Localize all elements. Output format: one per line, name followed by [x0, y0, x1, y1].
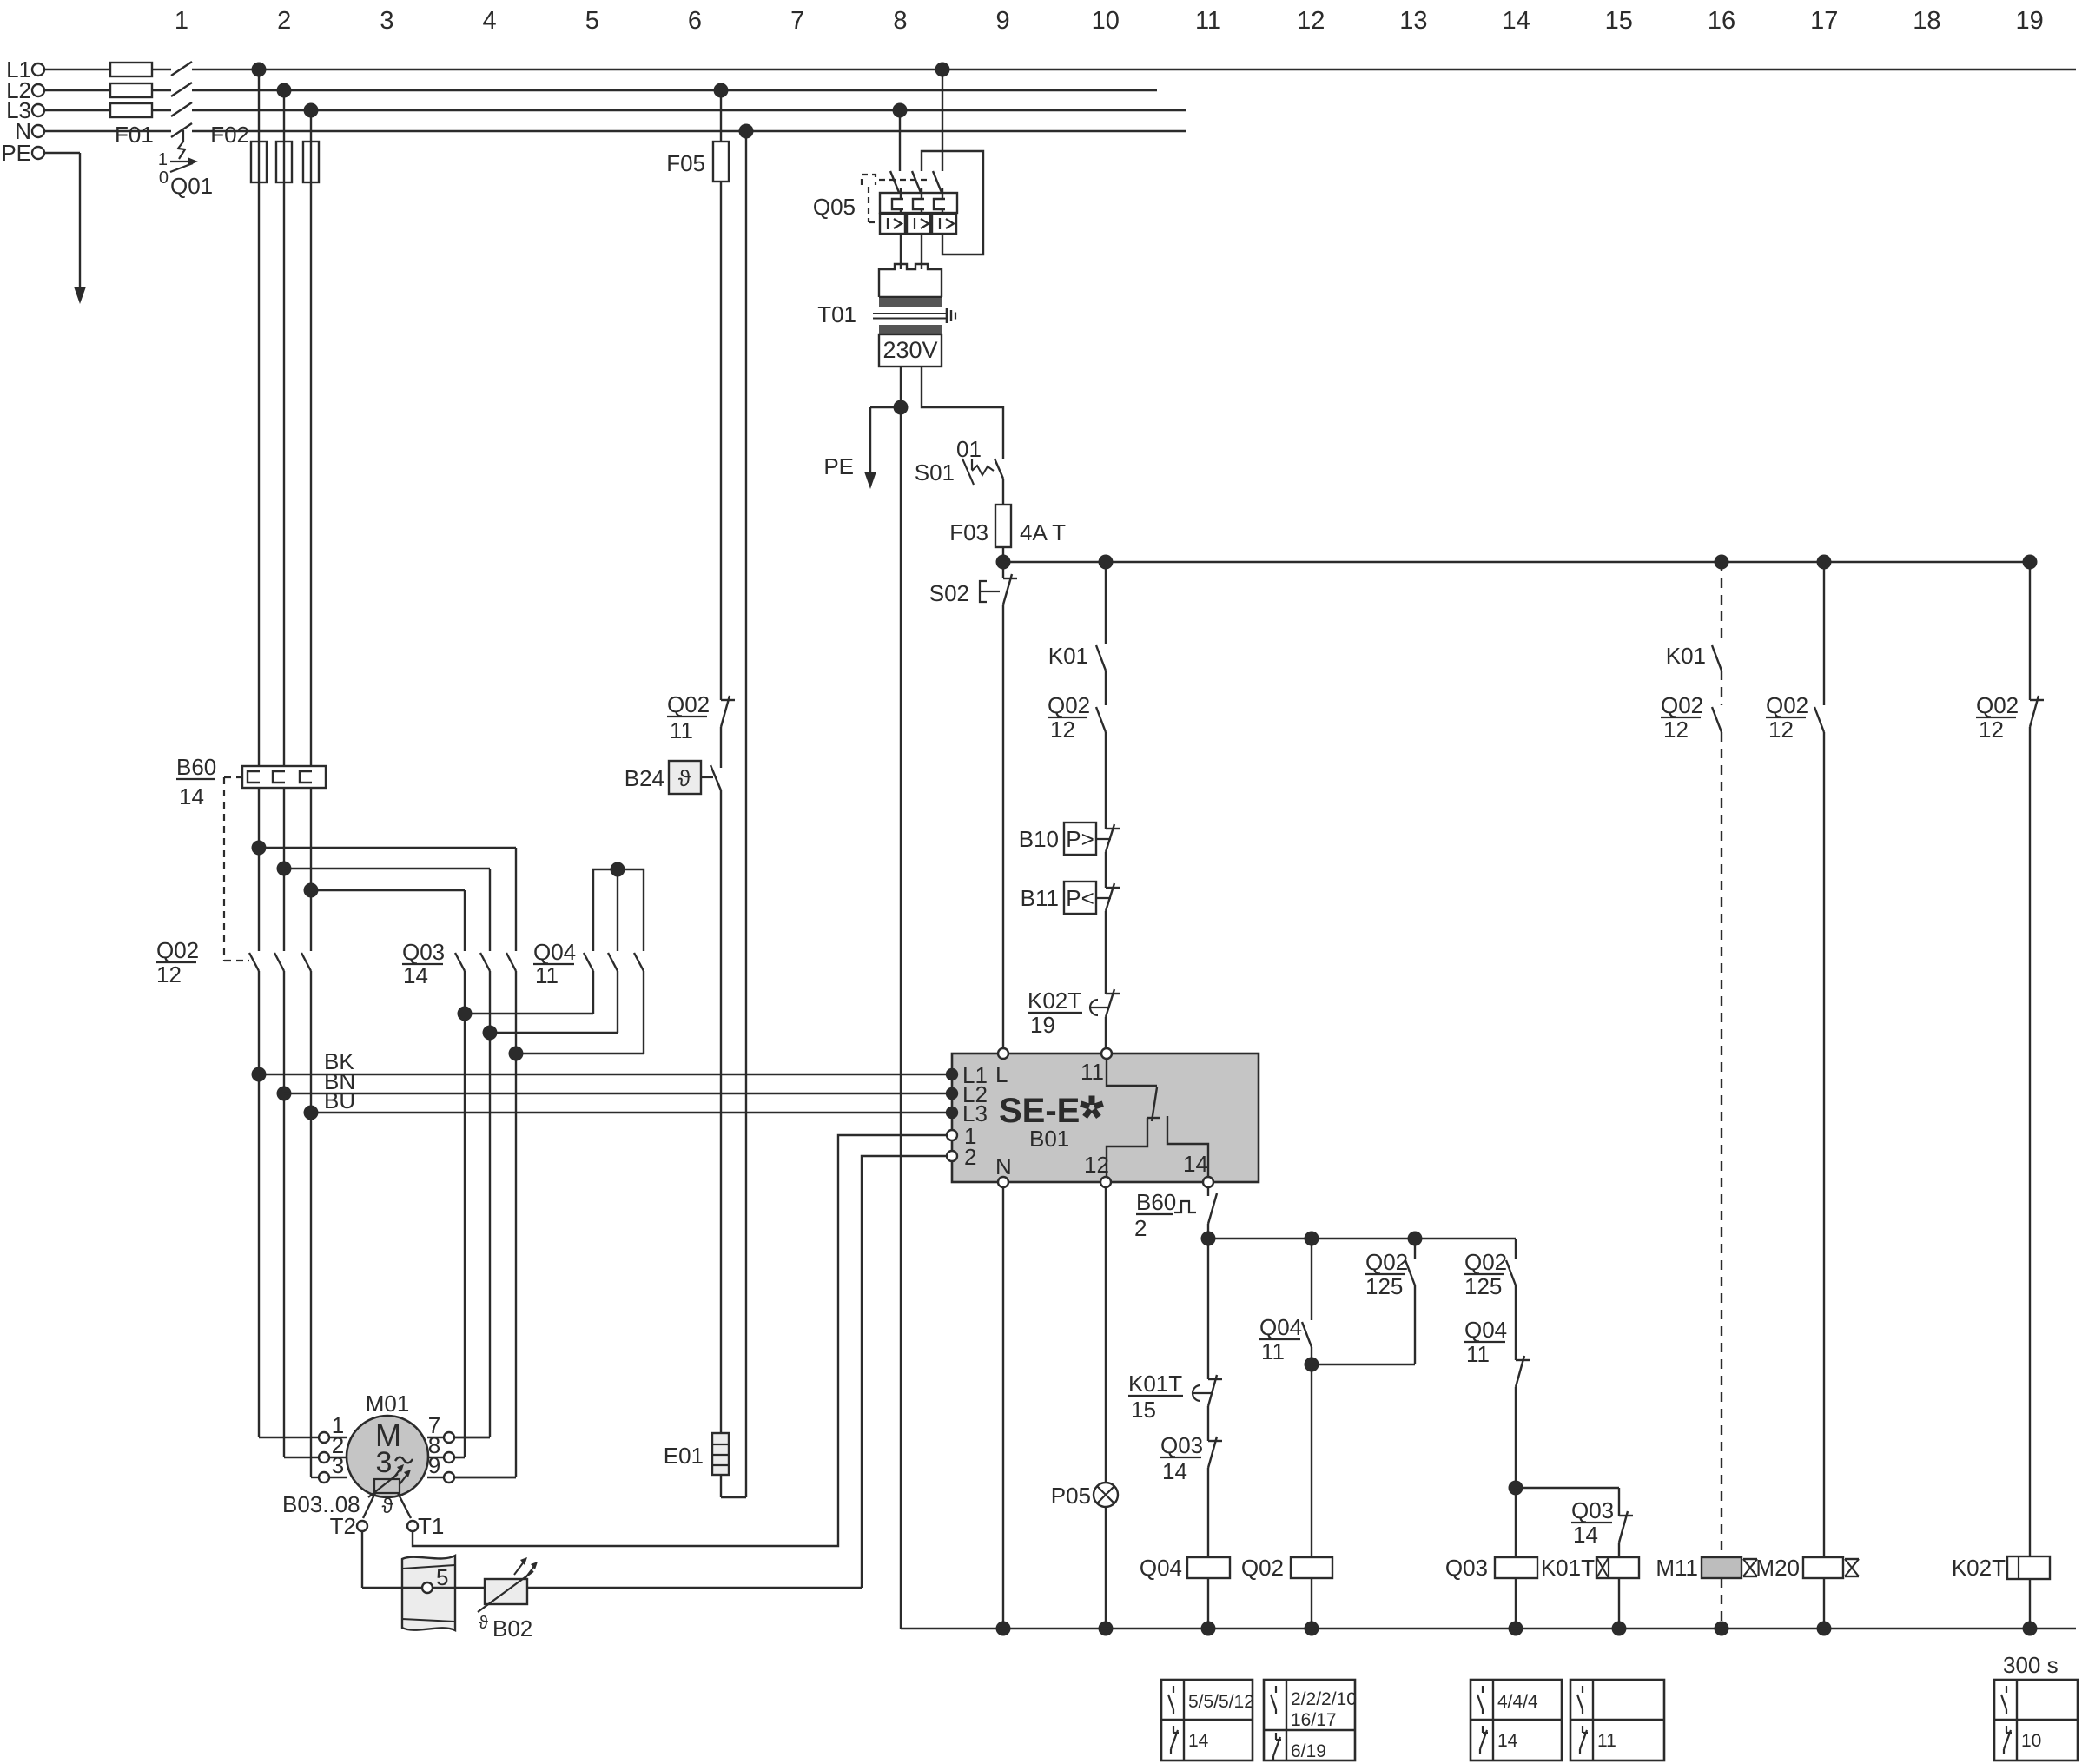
wire col17 b — [1823, 732, 1825, 1557]
svg-text:Q02: Q02 — [1661, 692, 1703, 718]
svg-text:14: 14 — [1497, 1731, 1518, 1751]
svg-text:12: 12 — [1979, 717, 2004, 743]
svg-text:F03: F03 — [949, 519, 988, 545]
contact K01T 15 — [1128, 1239, 1222, 1423]
contact K01 col10 — [1048, 643, 1106, 671]
svg-text:125: 125 — [1365, 1273, 1403, 1299]
node L1 tap q05 — [935, 63, 950, 77]
wire motor-terminals r — [427, 1437, 444, 1477]
wire col12 a — [1311, 1239, 1312, 1320]
svg-text:11: 11 — [1081, 1059, 1104, 1085]
svg-text:9: 9 — [428, 1452, 440, 1478]
svg-text:T01: T01 — [817, 301, 856, 327]
wire col17 a — [1823, 562, 1825, 705]
svg-text:9: 9 — [996, 7, 1010, 35]
node L1 tap — [252, 63, 267, 77]
xref table K02T — [1994, 1680, 2078, 1761]
wire T2-B02 — [362, 1531, 402, 1588]
wire L1-Q05 — [942, 69, 943, 171]
wire S01-F03 — [1002, 479, 1004, 505]
wire BN — [277, 1068, 948, 1101]
svg-text:Q02: Q02 — [667, 691, 710, 717]
breaker Q05 thermal elements — [880, 188, 957, 218]
fuse F03 4A T — [949, 505, 1066, 547]
coil Q04 — [1140, 1555, 1230, 1636]
contact Q03 14 aux — [1160, 1432, 1222, 1484]
svg-text:2/2/2/10: 2/2/2/10 — [1291, 1689, 1357, 1709]
svg-text:11: 11 — [1195, 7, 1221, 35]
svg-text:1: 1 — [158, 150, 168, 169]
wire B24-E01 — [720, 790, 722, 1433]
svg-text:Q04: Q04 — [1259, 1314, 1302, 1340]
svg-text:6: 6 — [688, 7, 702, 35]
svg-text:4/4/4: 4/4/4 — [1497, 1692, 1538, 1712]
svg-text:14: 14 — [403, 962, 428, 988]
wire col10 d — [1105, 852, 1107, 888]
terminal N — [15, 118, 44, 144]
svg-text:2: 2 — [1134, 1215, 1147, 1241]
svg-text:13: 13 — [1399, 7, 1427, 35]
svg-text:M11: M11 — [1656, 1555, 1698, 1581]
contact Q04 pole1 — [584, 953, 593, 971]
svg-text:230V: 230V — [882, 337, 937, 363]
lamp P05 — [1051, 1483, 1118, 1509]
wire T01 sec left — [900, 367, 902, 1629]
wire col16 dashed b — [1721, 671, 1722, 705]
motor terminal 1 — [319, 1412, 344, 1443]
wire Q04-Q03 tie1 — [458, 971, 594, 1021]
svg-text:125: 125 — [1464, 1273, 1502, 1299]
svg-text:5: 5 — [436, 1564, 448, 1590]
svg-text:14: 14 — [179, 783, 204, 809]
svg-text:SE-E: SE-E — [999, 1092, 1080, 1130]
node N tap — [739, 124, 754, 139]
motor terminal 3 — [319, 1452, 344, 1483]
svg-text:4: 4 — [483, 7, 497, 35]
svg-text:Q04: Q04 — [1464, 1317, 1507, 1343]
svg-text:17: 17 — [1810, 7, 1838, 35]
svg-text:B60: B60 — [176, 754, 216, 780]
wire K01T-Q03c — [1207, 1406, 1209, 1441]
svg-text:M01: M01 — [366, 1391, 410, 1417]
svg-text:5: 5 — [585, 7, 599, 35]
contact Q02 pole2 — [274, 953, 284, 971]
wire col14 b — [1515, 1488, 1517, 1557]
svg-text:S01: S01 — [915, 459, 955, 486]
svg-text:Q03: Q03 — [1445, 1555, 1488, 1581]
svg-text:Q05: Q05 — [813, 194, 856, 220]
switch S01 — [915, 436, 1003, 486]
svg-text:B11: B11 — [1021, 885, 1059, 911]
wire phase W — [311, 110, 319, 1477]
wire Q04 star bridge — [593, 862, 644, 952]
contact Q04 pole2 — [608, 953, 618, 971]
wire F05-Q02 — [720, 182, 722, 700]
wire L2 rail — [44, 89, 1157, 91]
node sec junction — [894, 400, 909, 415]
svg-text:PE: PE — [823, 453, 854, 479]
svg-text:8: 8 — [893, 7, 907, 35]
node L2 tap — [277, 83, 292, 98]
svg-text:01: 01 — [956, 436, 982, 462]
terminal L2 — [6, 77, 44, 103]
svg-text:F01: F01 — [115, 122, 154, 148]
svg-text:K01T: K01T — [1128, 1371, 1182, 1397]
contact Q02 11 — [667, 691, 735, 743]
contact Q03 pole2 — [480, 953, 490, 971]
svg-text:B10: B10 — [1019, 826, 1059, 852]
svg-text:18: 18 — [1913, 7, 1940, 35]
switch S02 — [929, 562, 1017, 606]
wire Q03c-Q04coil — [1207, 1468, 1209, 1557]
svg-text:Q02: Q02 — [1766, 692, 1808, 718]
fuse F02 — [210, 122, 319, 182]
wire col15 b — [1618, 1543, 1620, 1557]
wire Q05 loop — [922, 151, 983, 254]
label 300 s — [2003, 1652, 2059, 1678]
wire branch W-Q03 — [304, 883, 466, 952]
fuse F05 — [666, 90, 729, 182]
svg-text:14: 14 — [1188, 1731, 1209, 1751]
coil Q03 — [1445, 1555, 1537, 1636]
breaker Q05 contacts — [813, 171, 942, 222]
contact Q02 pole1 — [249, 953, 259, 971]
pulse contact B60 2 — [1134, 1187, 1217, 1241]
svg-text:11: 11 — [670, 717, 693, 743]
svg-text:16: 16 — [1708, 7, 1735, 35]
svg-text:K02T: K02T — [1952, 1555, 2006, 1581]
wire therm-T2 — [363, 1493, 375, 1518]
wire col10 b — [1105, 671, 1107, 705]
wire col10 f — [1105, 1017, 1107, 1048]
contact Q02 12 col10 — [1048, 692, 1106, 743]
svg-text:Q02: Q02 — [156, 937, 199, 963]
node bus col19 — [2023, 555, 2038, 570]
motor terminal 7 — [428, 1412, 454, 1443]
wire Q03 pole3 out — [454, 971, 516, 1477]
svg-text:14: 14 — [1502, 7, 1530, 35]
svg-text:Q02: Q02 — [1365, 1249, 1408, 1275]
contact Q03 pole3 — [506, 953, 516, 971]
terminal SEE N — [995, 1153, 1012, 1187]
wire N drop — [745, 131, 747, 1497]
node control bus left — [996, 555, 1011, 570]
node col14 join — [1509, 1387, 1523, 1496]
wire B02-SEE2 — [862, 1156, 947, 1588]
svg-text:T1: T1 — [418, 1513, 444, 1539]
contact K01 col16 — [1666, 643, 1722, 671]
node bus col16 — [1715, 555, 1729, 570]
terminal SEE L1 — [947, 1062, 988, 1088]
wire branch V-Q03 — [277, 862, 491, 952]
transformer T01 230V — [817, 264, 955, 367]
wire t9 riser — [454, 1477, 516, 1478]
contact Q02 12 col19 — [1976, 692, 2044, 743]
node col12 join — [1305, 1347, 1319, 1372]
wire Q05-T01 a — [900, 234, 902, 269]
wire col19 b — [2029, 727, 2031, 1556]
wire control bus — [1003, 561, 2030, 563]
svg-text:PE: PE — [1, 140, 31, 166]
wire col10 e — [1105, 911, 1107, 994]
node L2-F05 tap — [714, 83, 729, 98]
wire col17 c — [1817, 1578, 1832, 1636]
device B01 SE-E box — [952, 1054, 1259, 1182]
svg-text:S02: S02 — [929, 580, 969, 606]
svg-text:11: 11 — [1261, 1338, 1285, 1364]
svg-text:10: 10 — [1092, 7, 1120, 35]
wire col16 dashed a — [1721, 562, 1722, 644]
svg-text:11: 11 — [535, 962, 559, 988]
label B03..08 — [282, 1491, 360, 1517]
node L3 tap q05 — [893, 103, 908, 118]
svg-text:3: 3 — [380, 7, 393, 35]
xref table Q02 — [1264, 1680, 1357, 1761]
svg-text:Q02: Q02 — [1048, 692, 1090, 718]
svg-text:4A T: 4A T — [1020, 519, 1066, 545]
xref table Q03 — [1471, 1680, 1562, 1761]
wire N rail — [44, 130, 1186, 132]
svg-text:12: 12 — [1050, 717, 1075, 743]
terminal SEE L2 — [947, 1081, 988, 1107]
svg-text:K01: K01 — [1666, 643, 1706, 669]
pressure switch B11 P&lt; — [1021, 882, 1120, 914]
svg-text:6/19: 6/19 — [1291, 1741, 1326, 1761]
breaker Q05 magnetic trips I&gt; — [880, 214, 956, 234]
wire terminals-motor — [329, 1437, 347, 1477]
wire col13 down — [1312, 1285, 1415, 1364]
solenoid coil M20 — [1755, 1555, 1859, 1581]
timed contact K02T 19 — [1028, 988, 1120, 1038]
wire L3-Q05 — [899, 110, 901, 171]
svg-text:12: 12 — [1768, 717, 1794, 743]
svg-text:11: 11 — [1597, 1731, 1616, 1751]
coil K01T — [1541, 1555, 1639, 1636]
svg-text:B24: B24 — [625, 765, 664, 791]
wire T01 sec right — [922, 367, 1003, 459]
wire phase V — [284, 90, 319, 1457]
contactor Q03 14 label — [402, 939, 445, 988]
coil K02T — [1952, 1555, 2050, 1636]
contact Q02 12 col16 — [1661, 692, 1722, 743]
svg-text:15: 15 — [1131, 1397, 1156, 1423]
svg-text:M20: M20 — [1755, 1555, 1800, 1581]
svg-text:2: 2 — [964, 1144, 976, 1170]
motor terminal 8 — [428, 1432, 454, 1463]
svg-text:P05: P05 — [1051, 1483, 1091, 1509]
svg-text:L: L — [995, 1061, 1008, 1087]
wire P05-bus — [1099, 1507, 1114, 1636]
svg-text:B01: B01 — [1029, 1126, 1069, 1152]
wire Q03 pole2 out — [454, 971, 490, 1437]
wire BU — [304, 1087, 948, 1120]
svg-text:Q03: Q03 — [1160, 1432, 1203, 1458]
wire F03-bus — [1002, 547, 1004, 562]
svg-text:K01T: K01T — [1541, 1555, 1595, 1581]
wire phase U — [259, 69, 319, 1437]
column numbers 1-19 — [175, 7, 2044, 35]
svg-text:K01: K01 — [1048, 643, 1088, 669]
wire col16 dashed d — [1715, 1578, 1729, 1636]
xref table Q04 — [1161, 1680, 1254, 1761]
contactor Q02 12 label — [156, 937, 199, 988]
wire E01-N — [721, 1475, 746, 1497]
wire S02-SEE L — [1002, 605, 1004, 1048]
svg-text:16/17: 16/17 — [1291, 1710, 1337, 1730]
terminal L3 — [6, 97, 44, 123]
wire therm-T1 — [398, 1493, 411, 1518]
svg-text:ϑ: ϑ — [678, 765, 691, 791]
svg-text:19: 19 — [2015, 7, 2043, 35]
node bus col10 — [1099, 555, 1114, 570]
svg-text:Q02: Q02 — [1464, 1249, 1507, 1275]
wire col12 b — [1311, 1364, 1312, 1557]
wire 14 bus — [1201, 1232, 1517, 1246]
contact Q02 125 b — [1464, 1239, 1516, 1299]
wire col10 c — [1105, 732, 1107, 829]
wire t8 riser — [454, 1457, 465, 1458]
terminal SEE L — [995, 1048, 1008, 1087]
contact Q02 pole3 — [301, 953, 311, 971]
svg-text:B02: B02 — [492, 1615, 532, 1642]
pressure switch B10 P&gt; — [1019, 823, 1120, 855]
motor terminal 2 — [319, 1432, 344, 1463]
wire BK — [252, 1048, 948, 1082]
svg-text:3: 3 — [376, 1446, 393, 1479]
svg-text:ϑ: ϑ — [381, 1495, 393, 1518]
svg-text:ϑ: ϑ — [479, 1614, 488, 1633]
svg-text:Q01: Q01 — [170, 173, 213, 199]
svg-text:3: 3 — [332, 1452, 344, 1478]
terminal SEE 1 — [947, 1123, 976, 1149]
svg-text:E01: E01 — [664, 1443, 704, 1469]
terminal T2 — [330, 1513, 367, 1539]
contact Q03 pole1 — [455, 953, 465, 971]
contact Q04 11 aux — [1259, 1314, 1312, 1364]
svg-text:14: 14 — [1183, 1151, 1208, 1177]
wire SEE N-bus — [996, 1187, 1011, 1636]
terminal L1 — [6, 56, 44, 83]
junction box terminal 5 — [402, 1556, 455, 1630]
heater E01 — [664, 1433, 729, 1475]
svg-text:12: 12 — [1663, 717, 1689, 743]
wire branch U-Q03 — [252, 841, 517, 952]
terminal SEE L3 — [947, 1100, 988, 1126]
wire Q04-Q03 tie3 — [509, 971, 644, 1061]
fuse F01 — [110, 63, 154, 148]
current monitor B60 14 — [176, 754, 326, 961]
svg-text:10: 10 — [2021, 1731, 2041, 1751]
svg-text:12: 12 — [156, 961, 182, 988]
wire SEE 12-P05 — [1105, 1187, 1107, 1483]
svg-text:BU: BU — [324, 1087, 355, 1113]
PE conductor arrow — [44, 153, 86, 304]
svg-text:12: 12 — [1084, 1152, 1109, 1178]
contact Q03 14 b — [1571, 1497, 1633, 1548]
contact Q02 12 col17 — [1766, 692, 1824, 743]
wire T1-SEE1 — [413, 1135, 947, 1546]
svg-text:12: 12 — [1297, 7, 1325, 35]
contact Q02 125 a — [1365, 1239, 1415, 1299]
svg-text:Q03: Q03 — [402, 939, 445, 965]
wire col15 a — [1516, 1488, 1619, 1516]
svg-text:14: 14 — [1573, 1522, 1598, 1548]
svg-text:0: 0 — [159, 168, 169, 188]
terminal SEE 2 — [947, 1144, 976, 1170]
wire t7 riser — [454, 1437, 490, 1438]
svg-text:Q04: Q04 — [1140, 1555, 1182, 1581]
svg-text:N: N — [995, 1153, 1012, 1179]
contact Q04 pole3 — [634, 953, 644, 971]
terminal SEE 14 — [1183, 1151, 1213, 1187]
wire col19 a — [2029, 562, 2031, 700]
svg-text:Q04: Q04 — [533, 939, 576, 965]
svg-text:F05: F05 — [666, 150, 705, 176]
terminal PE — [1, 140, 44, 166]
node bus col17 — [1817, 555, 1832, 570]
motor M01 — [347, 1391, 428, 1518]
PE arrow control — [823, 407, 901, 489]
svg-text:15: 15 — [1605, 7, 1633, 35]
wire L1 rail — [44, 69, 2076, 70]
wire col16 dashed c — [1721, 732, 1722, 1557]
thermostat B24 — [625, 761, 721, 794]
wire Q04-Q03 tie2 — [483, 971, 618, 1041]
device B01 internal contact — [1107, 1059, 1208, 1177]
svg-text:19: 19 — [1030, 1012, 1055, 1038]
svg-text:7: 7 — [790, 7, 804, 35]
wire L3 rail — [44, 109, 1186, 111]
coil Q02 — [1241, 1555, 1332, 1636]
motor terminal 9 — [428, 1452, 454, 1483]
svg-text:Q02: Q02 — [1976, 692, 2019, 718]
svg-text:5/5/5/12: 5/5/5/12 — [1188, 1692, 1254, 1712]
node L3 tap — [304, 103, 319, 118]
wire Q05-T01 b — [921, 234, 922, 269]
wire col10 a — [1105, 562, 1107, 644]
svg-text:Q02: Q02 — [1241, 1555, 1284, 1581]
wire Q03 pole1 out — [454, 971, 465, 1457]
xref table K01T — [1570, 1680, 1664, 1761]
device B01 labels — [999, 1092, 1103, 1152]
svg-text:14: 14 — [1162, 1458, 1187, 1484]
svg-text:K02T: K02T — [1028, 988, 1081, 1014]
svg-text:1: 1 — [175, 7, 188, 35]
svg-text:F02: F02 — [210, 122, 249, 148]
disconnect switch Q01 — [158, 62, 213, 199]
terminal SEE 12 — [1084, 1152, 1111, 1187]
wire col14 a — [1515, 1285, 1517, 1360]
terminal SEE 11 — [1081, 1048, 1112, 1085]
svg-text:2: 2 — [277, 7, 291, 35]
wire bottom bus — [901, 1628, 2076, 1629]
svg-text:11: 11 — [1466, 1341, 1490, 1367]
temperature sensor B02 — [455, 1557, 862, 1642]
svg-text:Q03: Q03 — [1571, 1497, 1614, 1523]
svg-text:T2: T2 — [330, 1513, 356, 1539]
svg-text:P<: P< — [1066, 885, 1094, 911]
contact Q04 11 b — [1464, 1317, 1530, 1387]
wire Q02-B24 — [720, 727, 722, 768]
svg-text:300 s: 300 s — [2003, 1652, 2059, 1678]
contactor Q04 11 label — [533, 939, 576, 988]
svg-text:B60: B60 — [1136, 1189, 1176, 1215]
svg-text:P>: P> — [1066, 826, 1094, 852]
solenoid coil M11 — [1656, 1555, 1757, 1581]
terminal T1 — [407, 1513, 444, 1539]
